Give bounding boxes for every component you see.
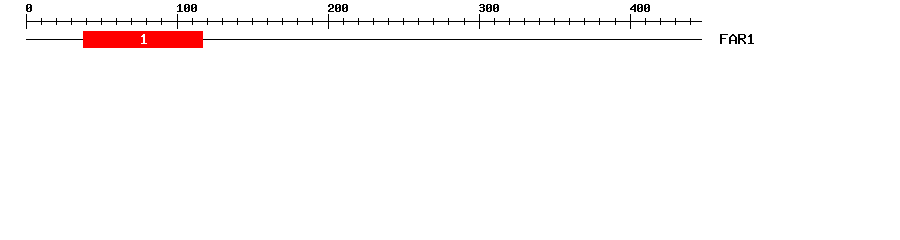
domain box 1 (red) bbox=[83, 31, 203, 48]
ruler label 100 bbox=[177, 4, 197, 12]
ruler label 300 bbox=[479, 4, 499, 12]
major ticks (every 100) bbox=[26, 14, 631, 29]
protein name FAR1 bbox=[720, 34, 754, 44]
feature baseline bbox=[26, 39, 702, 40]
ruler label 200 bbox=[328, 4, 348, 12]
ruler axis line bbox=[26, 21, 702, 22]
ruler label 400 bbox=[630, 4, 650, 12]
minor ticks (every 10) bbox=[41, 18, 691, 25]
ruler label 0 bbox=[26, 4, 32, 12]
domain label 1 (white) bbox=[141, 34, 147, 44]
